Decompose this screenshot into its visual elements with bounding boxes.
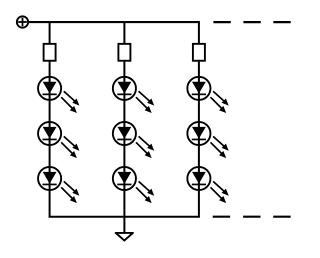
LED D6 xyxy=(113,167,154,203)
wire: branch 3 LED string xyxy=(198,62,200,217)
ground xyxy=(116,233,133,241)
LED D2 xyxy=(38,122,79,158)
wire: branch 3 feed xyxy=(198,22,200,44)
resistor R2 xyxy=(118,44,130,61)
LED D7 xyxy=(187,77,228,113)
LED D3 xyxy=(38,167,79,203)
resistor R1 xyxy=(44,44,56,61)
dashed continuation (bottom right) xyxy=(213,216,291,218)
wire: top supply bus xyxy=(28,21,200,23)
wire: branch 2 LED string xyxy=(123,62,125,217)
wire: ground stub xyxy=(123,217,125,233)
LED D5 xyxy=(113,122,154,158)
LED D1 xyxy=(38,77,79,113)
LED D8 xyxy=(187,122,228,158)
LED D9 xyxy=(187,167,228,203)
wire: branch 1 feed xyxy=(49,22,51,44)
resistor R3 xyxy=(193,44,205,61)
wire: branch 1 LED string xyxy=(49,62,51,217)
LED D4 xyxy=(113,77,154,113)
positive supply terminal xyxy=(17,16,28,27)
wire: bottom return bus xyxy=(49,216,200,218)
wire: branch 2 feed xyxy=(123,22,125,44)
dashed continuation (top right) xyxy=(213,21,290,23)
